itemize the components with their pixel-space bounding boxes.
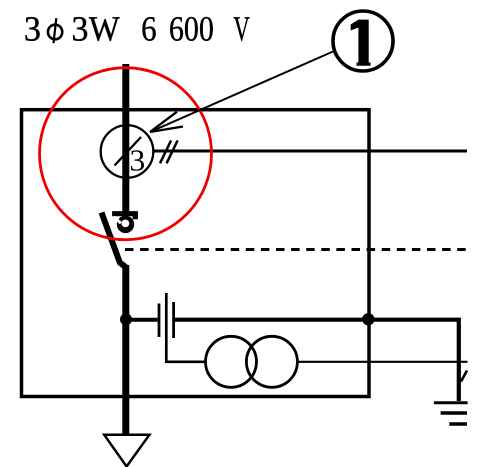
svg-text:600: 600 xyxy=(169,8,214,48)
svg-text:V: V xyxy=(233,8,250,48)
svg-text:3: 3 xyxy=(24,8,41,48)
svg-text:3: 3 xyxy=(72,8,89,48)
svg-text:W: W xyxy=(89,8,120,48)
svg-text:6: 6 xyxy=(141,8,156,48)
svg-text:3: 3 xyxy=(129,143,145,177)
